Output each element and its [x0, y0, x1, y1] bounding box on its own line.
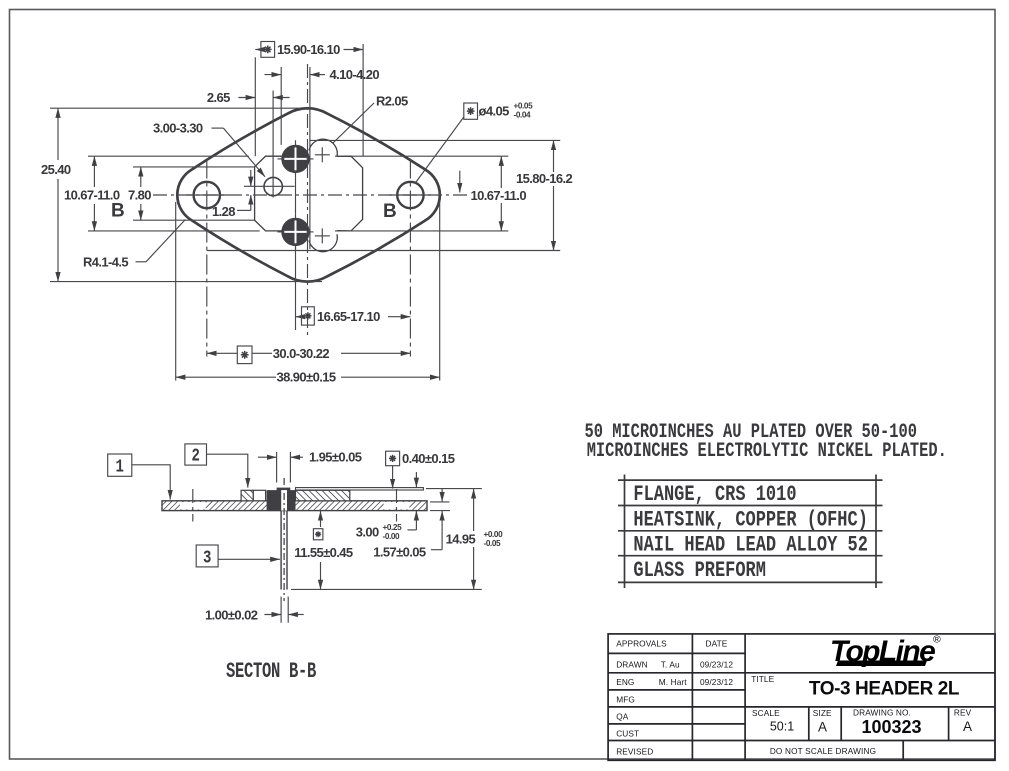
svg-text:0.40±0.15: 0.40±0.15	[402, 451, 455, 466]
octagon edge extension lines	[88, 155, 249, 157]
pin-hole cross top	[315, 154, 330, 156]
svg-text:R2.05: R2.05	[376, 94, 408, 109]
svg-text:SECTON B-B: SECTON B-B	[226, 658, 317, 684]
svg-text:REVISED: REVISED	[616, 747, 653, 757]
pin centerline dashed	[283, 478, 285, 601]
svg-text:TITLE: TITLE	[751, 674, 774, 684]
svg-text:1.57±0.05: 1.57±0.05	[373, 545, 426, 560]
svg-text:A: A	[963, 719, 972, 734]
mounting hole right	[397, 182, 423, 208]
pin bottom (glass bead, filled)	[281, 218, 309, 246]
svg-text:15.80-16.2: 15.80-16.2	[516, 171, 573, 186]
svg-text:2.65: 2.65	[207, 90, 230, 105]
svg-text:DATE: DATE	[706, 639, 728, 649]
mounting hole left	[194, 182, 220, 208]
pin dia ext lines top	[276, 452, 278, 483]
svg-text:1.95±0.05: 1.95±0.05	[309, 450, 362, 465]
dim 30.0-30.22	[207, 352, 238, 354]
svg-text:B: B	[383, 201, 397, 222]
svg-text:14.95: 14.95	[446, 532, 476, 547]
centerline horizontal	[153, 194, 467, 196]
hole centerline right	[409, 159, 411, 357]
svg-text:APPROVALS: APPROVALS	[616, 639, 667, 649]
seat octagon with R2.05 bumps	[255, 156, 363, 231]
small locating hole	[264, 177, 282, 195]
svg-text:A: A	[818, 720, 827, 735]
svg-text:CUST: CUST	[616, 728, 639, 738]
material table grid	[618, 475, 883, 589]
seat block left	[241, 490, 253, 501]
svg-text:MICROINCHES ELECTROLYTIC NICKE: MICROINCHES ELECTROLYTIC NICKEL PLATED.	[587, 440, 947, 463]
dim 10.67-11.0 right	[500, 156, 502, 188]
dim 4.10-4.20	[265, 74, 282, 76]
svg-text:MFG: MFG	[616, 694, 635, 704]
dim 1.28	[250, 170, 252, 186]
svg-text:1: 1	[116, 456, 125, 477]
dim 7.80	[133, 166, 255, 168]
hole centerline left	[206, 159, 208, 357]
svg-text:REV: REV	[954, 708, 972, 718]
top lip thin plate	[296, 488, 424, 490]
svg-text:-0.05: -0.05	[484, 539, 502, 548]
balloon 3	[196, 545, 218, 567]
dim dia 4.05	[464, 103, 478, 119]
dim 15.90-16.10	[255, 49, 262, 51]
bump extension lines right	[310, 139, 560, 141]
svg-text:7.80: 7.80	[128, 188, 151, 203]
svg-text:SIZE: SIZE	[813, 708, 832, 718]
svg-text:100323: 100323	[861, 717, 921, 737]
svg-text:38.90±0.15: 38.90±0.15	[277, 370, 336, 385]
svg-text:HEATSINK, COPPER (OFHC): HEATSINK, COPPER (OFHC)	[633, 507, 867, 532]
pin channel	[281, 490, 287, 511]
svg-text:30.0-30.22: 30.0-30.22	[273, 346, 330, 361]
flange outline (TO-3 diamond shape)	[177, 108, 440, 281]
svg-text:-0.00: -0.00	[383, 532, 401, 541]
svg-text:FLANGE, CRS 1010: FLANGE, CRS 1010	[633, 482, 796, 507]
flange hole gaps (white)	[180, 502, 206, 509]
svg-text:25.40: 25.40	[41, 162, 71, 177]
title block grid	[608, 634, 995, 760]
svg-text:SCALE: SCALE	[752, 708, 780, 718]
svg-text:3.00-3.30: 3.00-3.30	[153, 121, 203, 136]
svg-text:50:1: 50:1	[770, 720, 794, 734]
small hole centerlines	[272, 91, 274, 198]
balloon 1	[108, 454, 132, 476]
svg-text:ENG: ENG	[616, 677, 634, 687]
pin top (glass bead, filled)	[281, 145, 309, 173]
hole centerline right	[396, 489, 398, 522]
svg-text:2: 2	[192, 445, 200, 466]
R2.05 bump arc top	[309, 139, 337, 156]
heatsink copper block	[296, 490, 350, 501]
svg-text:3: 3	[203, 547, 211, 568]
svg-text:QA: QA	[616, 711, 629, 721]
svg-text:3.00: 3.00	[356, 525, 379, 540]
pin-hole cross bottom	[315, 235, 330, 237]
svg-text:-0.04: -0.04	[514, 111, 532, 120]
svg-text:11.55±0.45: 11.55±0.45	[294, 545, 353, 560]
svg-text:1.00±0.02: 1.00±0.02	[205, 607, 258, 622]
svg-text:DO NOT SCALE DRAWING: DO NOT SCALE DRAWING	[770, 747, 876, 756]
svg-text:TO-3 HEADER 2L: TO-3 HEADER 2L	[809, 679, 960, 700]
svg-text:DRAWN: DRAWN	[616, 659, 648, 669]
nail head top	[277, 488, 291, 491]
svg-text:10.67-11.0: 10.67-11.0	[471, 188, 527, 203]
dim 38.90±0.15	[176, 376, 276, 378]
balloon 2	[185, 444, 207, 465]
hole centerline left	[192, 489, 194, 522]
svg-text:16.65-17.10: 16.65-17.10	[317, 309, 380, 324]
hole cross ticks	[186, 194, 228, 196]
dim 15.80-16.2	[553, 140, 555, 172]
svg-text:GLASS PREFORM: GLASS PREFORM	[633, 558, 766, 583]
dim 3.00 +0.25/-0.00	[415, 511, 417, 530]
svg-text:M. Hart: M. Hart	[659, 677, 687, 687]
dim 11.55±0.45	[320, 511, 322, 527]
dim 10.67-11.0 left	[93, 156, 95, 187]
svg-text:R4.1-4.5: R4.1-4.5	[83, 255, 128, 270]
svg-text:15.90-16.10: 15.90-16.10	[277, 42, 340, 57]
svg-text:ø4.05: ø4.05	[479, 104, 510, 119]
svg-text:T. Au: T. Au	[661, 659, 680, 669]
dim 1.95±0.05	[258, 456, 277, 458]
dim 0.40±0.15	[386, 451, 400, 466]
svg-text:DRAWING NO.: DRAWING NO.	[853, 708, 911, 718]
glass window	[253, 490, 265, 501]
svg-text:B: B	[111, 201, 125, 222]
svg-text:09/23/12: 09/23/12	[700, 659, 733, 669]
svg-text:+0.00: +0.00	[484, 530, 504, 539]
svg-text:NAIL HEAD LEAD ALLOY 52: NAIL HEAD LEAD ALLOY 52	[633, 532, 867, 557]
svg-text:+0.25: +0.25	[383, 523, 403, 532]
svg-text:+0.05: +0.05	[514, 102, 534, 111]
glass seal dark block	[267, 490, 296, 511]
dim 25.40	[50, 107, 310, 109]
centerline vertical	[307, 64, 309, 335]
R2.05 bump arc bottom	[309, 234, 337, 251]
svg-text:®: ®	[933, 634, 941, 646]
svg-text:4.10-4.20: 4.10-4.20	[330, 67, 380, 82]
dim 14.95 +0.00/-0.05	[426, 488, 482, 490]
svg-text:09/23/12: 09/23/12	[700, 677, 733, 687]
svg-text:1.28: 1.28	[212, 204, 235, 219]
pin below flange	[280, 511, 282, 590]
dim 16.65-17.10	[296, 316, 302, 318]
flange bar cross-section	[162, 501, 427, 511]
TopLine logo	[830, 634, 941, 669]
